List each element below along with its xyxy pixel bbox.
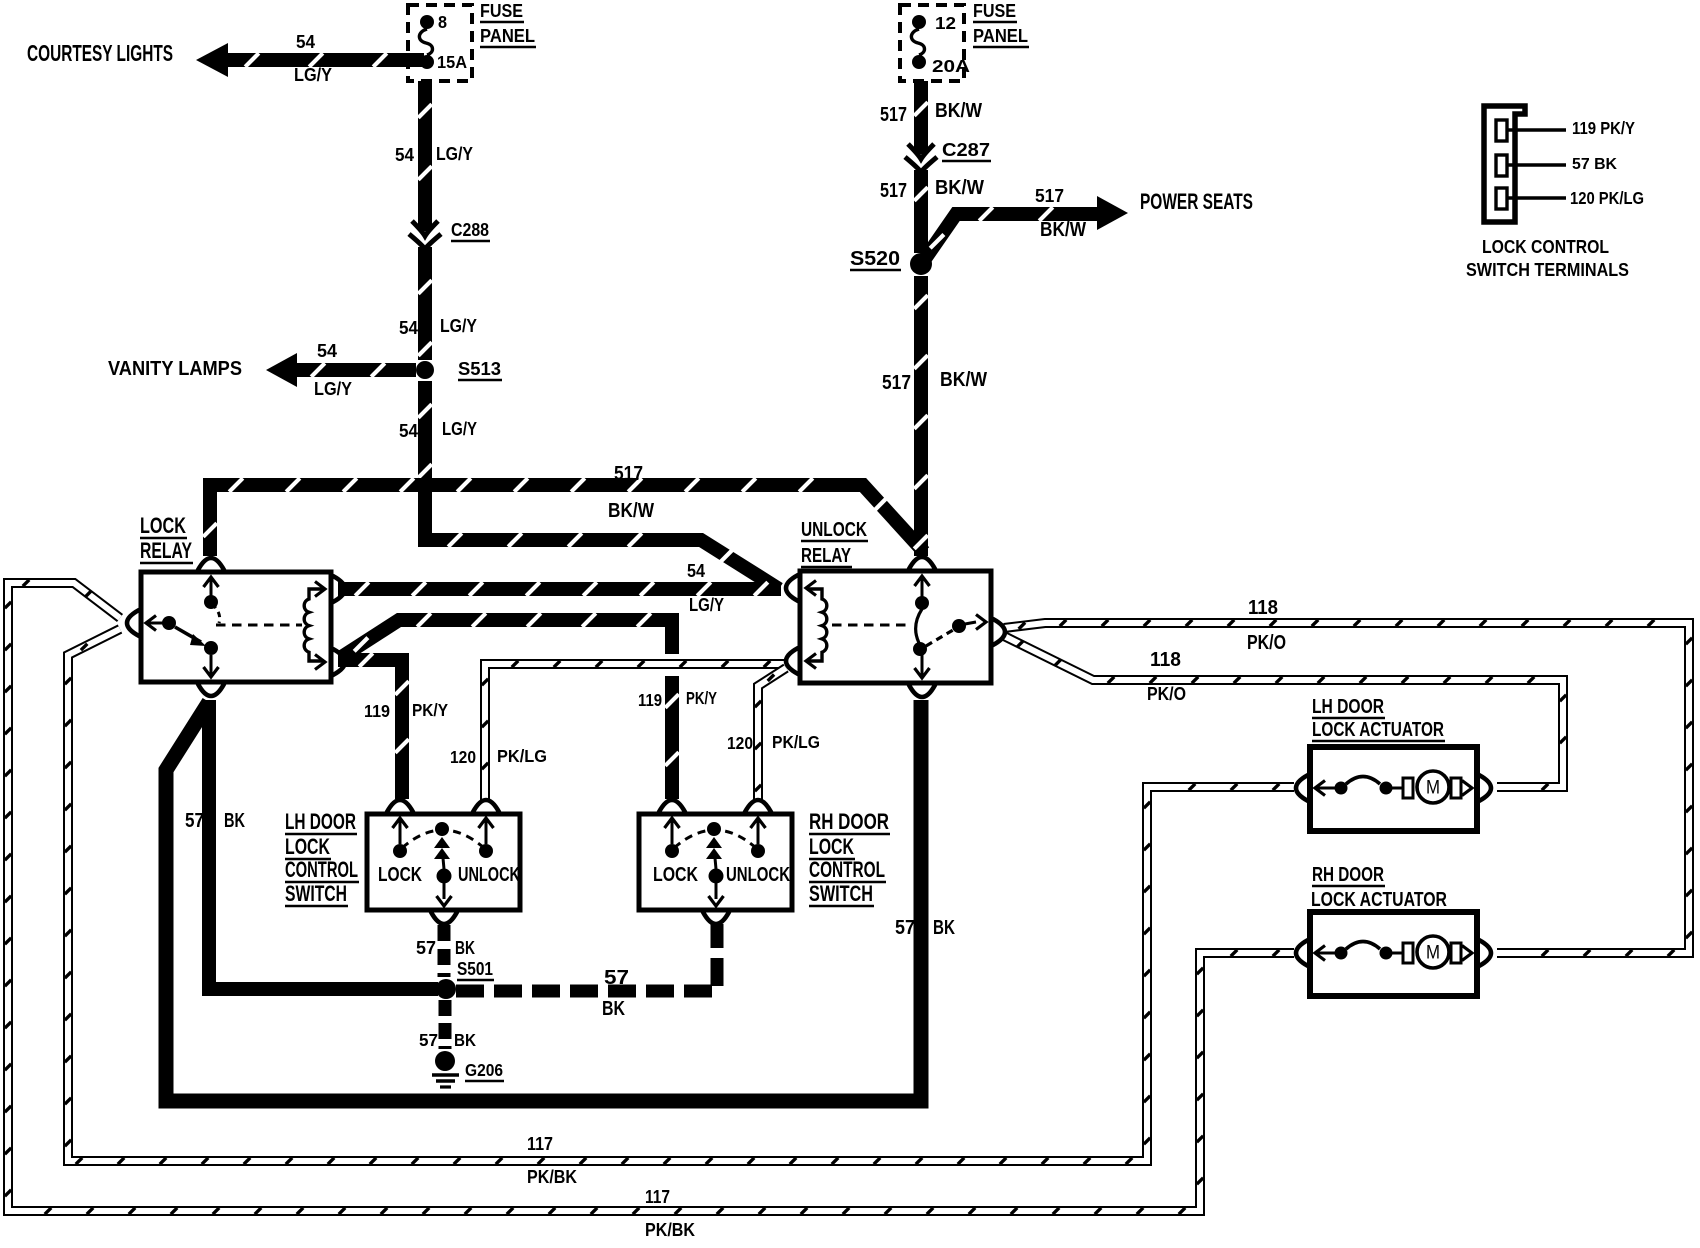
- svg-text:C288: C288: [451, 220, 489, 241]
- svg-text:PK/LG: PK/LG: [772, 732, 820, 752]
- svg-text:LOCK: LOCK: [140, 513, 186, 538]
- svg-text:UNLOCK: UNLOCK: [458, 864, 520, 886]
- svg-text:S513: S513: [458, 359, 501, 380]
- svg-text:M: M: [1426, 778, 1440, 799]
- svg-text:PK/BK: PK/BK: [645, 1220, 695, 1241]
- svg-text:LOCK CONTROL: LOCK CONTROL: [1482, 237, 1609, 258]
- svg-text:BK/W: BK/W: [608, 500, 655, 522]
- svg-text:PANEL: PANEL: [973, 26, 1028, 47]
- svg-text:LG/Y: LG/Y: [294, 65, 332, 86]
- svg-text:SWITCH: SWITCH: [809, 881, 873, 906]
- svg-text:BK: BK: [454, 1030, 476, 1050]
- svg-text:C287: C287: [942, 140, 990, 161]
- svg-text:VANITY LAMPS: VANITY LAMPS: [108, 358, 242, 380]
- svg-text:LH DOOR: LH DOOR: [1312, 696, 1384, 718]
- svg-text:BK: BK: [455, 938, 475, 959]
- svg-text:SWITCH: SWITCH: [285, 881, 347, 906]
- svg-text:LOCK: LOCK: [653, 864, 698, 886]
- svg-text:RELAY: RELAY: [140, 538, 192, 563]
- svg-text:LG/Y: LG/Y: [440, 316, 477, 337]
- svg-text:117: 117: [527, 1134, 553, 1155]
- svg-text:PANEL: PANEL: [480, 26, 535, 47]
- svg-text:BK/W: BK/W: [935, 177, 985, 199]
- svg-text:20A: 20A: [932, 56, 971, 76]
- svg-text:57 BK: 57 BK: [1572, 156, 1617, 173]
- svg-text:54: 54: [399, 421, 418, 442]
- svg-text:PK/LG: PK/LG: [497, 746, 547, 766]
- svg-text:PK/O: PK/O: [1147, 684, 1186, 705]
- svg-text:BK: BK: [602, 998, 625, 1020]
- svg-text:517: 517: [882, 372, 911, 394]
- svg-text:LOCK ACTUATOR: LOCK ACTUATOR: [1311, 889, 1447, 911]
- svg-text:PK/Y: PK/Y: [686, 688, 717, 708]
- svg-text:LOCK: LOCK: [378, 864, 422, 886]
- svg-text:54: 54: [399, 318, 418, 339]
- svg-text:G206: G206: [465, 1060, 503, 1080]
- svg-text:S520: S520: [850, 248, 900, 270]
- svg-text:8: 8: [438, 12, 447, 32]
- svg-text:CONTROL: CONTROL: [285, 857, 358, 882]
- svg-text:12: 12: [935, 13, 956, 33]
- svg-text:517: 517: [1035, 186, 1064, 207]
- svg-text:LOCK ACTUATOR: LOCK ACTUATOR: [1312, 719, 1444, 741]
- svg-text:57: 57: [895, 917, 915, 939]
- svg-text:FUSE: FUSE: [480, 1, 523, 22]
- svg-text:119: 119: [364, 701, 390, 721]
- svg-text:120 PK/LG: 120 PK/LG: [1570, 188, 1644, 208]
- svg-text:RH DOOR: RH DOOR: [809, 809, 889, 834]
- svg-text:RH DOOR: RH DOOR: [1312, 864, 1384, 886]
- svg-text:POWER SEATS: POWER SEATS: [1140, 189, 1253, 214]
- svg-text:120: 120: [727, 733, 753, 753]
- svg-text:117: 117: [645, 1187, 670, 1208]
- svg-text:BK/W: BK/W: [935, 100, 983, 122]
- svg-text:57: 57: [416, 938, 436, 959]
- svg-text:57: 57: [419, 1030, 438, 1050]
- svg-text:PK/BK: PK/BK: [527, 1167, 577, 1188]
- svg-text:FUSE: FUSE: [973, 1, 1016, 22]
- svg-text:LH DOOR: LH DOOR: [285, 809, 356, 834]
- svg-text:PK/O: PK/O: [1247, 632, 1286, 654]
- svg-text:54: 54: [317, 341, 337, 362]
- svg-text:BK/W: BK/W: [1040, 219, 1087, 241]
- svg-text:119 PK/Y: 119 PK/Y: [1572, 118, 1635, 138]
- svg-text:M: M: [1426, 943, 1440, 964]
- svg-text:517: 517: [614, 463, 643, 485]
- svg-text:57: 57: [604, 967, 629, 989]
- svg-text:118: 118: [1248, 597, 1278, 619]
- svg-text:517: 517: [880, 180, 907, 202]
- svg-text:LOCK: LOCK: [809, 834, 854, 859]
- svg-text:CONTROL: CONTROL: [809, 857, 885, 882]
- svg-text:UNLOCK: UNLOCK: [726, 864, 790, 886]
- svg-text:517: 517: [880, 104, 907, 126]
- svg-text:119: 119: [638, 690, 662, 710]
- svg-text:LOCK: LOCK: [285, 834, 330, 859]
- svg-text:BK/W: BK/W: [940, 369, 988, 391]
- svg-text:15A: 15A: [437, 52, 467, 72]
- svg-text:57: 57: [185, 810, 204, 832]
- svg-text:LG/Y: LG/Y: [314, 379, 352, 400]
- svg-text:120: 120: [450, 747, 476, 767]
- svg-text:54: 54: [395, 145, 414, 166]
- svg-text:SWITCH TERMINALS: SWITCH TERMINALS: [1466, 260, 1629, 281]
- svg-text:RELAY: RELAY: [801, 545, 851, 567]
- svg-text:PK/Y: PK/Y: [412, 700, 448, 720]
- svg-text:54: 54: [296, 32, 315, 53]
- svg-text:S501: S501: [457, 959, 493, 980]
- svg-text:BK: BK: [933, 917, 955, 939]
- svg-text:BK: BK: [224, 810, 245, 832]
- svg-text:UNLOCK: UNLOCK: [801, 519, 867, 541]
- svg-text:COURTESY LIGHTS: COURTESY LIGHTS: [27, 40, 173, 66]
- svg-text:54: 54: [687, 561, 705, 582]
- svg-text:118: 118: [1150, 649, 1181, 671]
- svg-text:LG/Y: LG/Y: [436, 144, 473, 165]
- svg-text:LG/Y: LG/Y: [442, 419, 477, 440]
- svg-text:LG/Y: LG/Y: [689, 595, 724, 616]
